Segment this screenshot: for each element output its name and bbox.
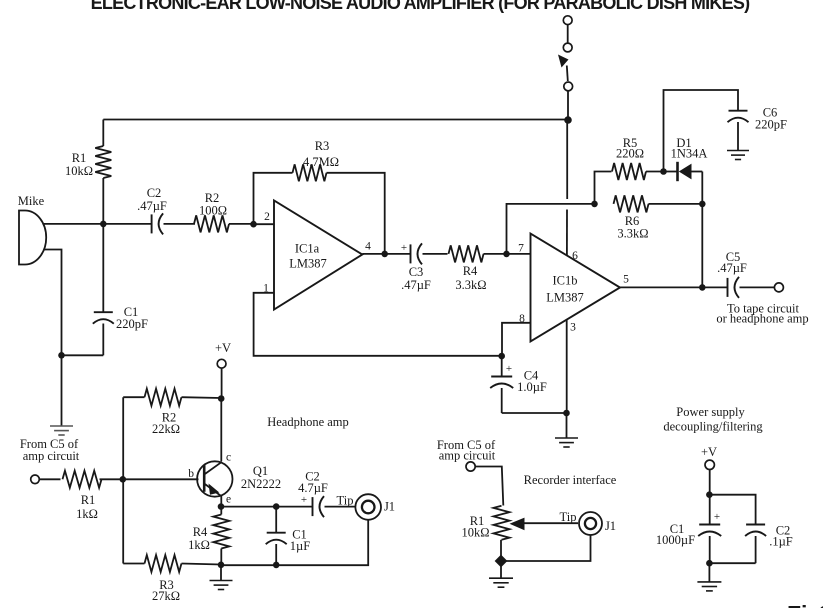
wire recorder input: [475, 467, 503, 506]
svg-text:1.0µF: 1.0µF: [517, 380, 547, 394]
svg-text:220Ω: 220Ω: [616, 147, 644, 161]
capacitor C1 220pF: [93, 224, 114, 355]
svg-text:Mike: Mike: [18, 194, 45, 208]
label From C5 of: [20, 437, 79, 451]
label C2: [147, 186, 162, 200]
label pin 8: [519, 313, 525, 325]
svg-text:IC1a: IC1a: [295, 242, 320, 256]
svg-text:J1: J1: [384, 500, 395, 514]
wire to IC1b pin 6 (lower part after crossing): [566, 210, 568, 256]
ground (mike input): [50, 426, 73, 435]
wire left bias bus: [122, 397, 124, 563]
svg-text:R1: R1: [72, 151, 87, 165]
svg-text:amp circuit: amp circuit: [23, 449, 80, 463]
label 2N2222: [241, 477, 281, 491]
svg-text:8: 8: [519, 313, 525, 325]
label C3 .47uF: [401, 278, 431, 292]
label c: [226, 452, 231, 464]
terminal output: [774, 283, 783, 292]
label pin 7: [518, 243, 524, 255]
junction pin8/C4/feedback: [498, 353, 505, 360]
label Tip (headphone): [337, 494, 354, 508]
junction R5/R6 left: [591, 201, 598, 208]
label C2h plus: [301, 494, 307, 506]
svg-text:+: +: [714, 511, 720, 523]
svg-text:+: +: [506, 363, 512, 375]
label Tip (recorder): [560, 510, 577, 524]
jack J1 (recorder): [579, 512, 602, 535]
label C6 220pF: [755, 118, 787, 132]
ground (main amp): [555, 438, 578, 447]
wire pin7 node up to feedback: [507, 204, 595, 254]
resistor R5 220 ohm: [595, 163, 664, 204]
svg-text:4: 4: [365, 241, 371, 253]
title text (cropped at top edge): [91, 0, 750, 13]
label 100 ohm: [199, 204, 227, 218]
terminal recorder input: [466, 462, 475, 471]
junction emitter node: [218, 503, 225, 510]
wire IC1a output pin 4: [362, 253, 410, 255]
wire jack down to rail: [221, 520, 368, 565]
svg-text:IC1b: IC1b: [553, 274, 578, 288]
label From C5 of (rec): [437, 438, 496, 452]
ground (recorder): [489, 578, 513, 587]
junction top rail / switch: [564, 116, 572, 124]
wire rail junction down to IC1b pin 6 (upper part): [566, 120, 568, 199]
ground (headphone): [210, 581, 233, 590]
label LM387 (b): [546, 291, 584, 305]
svg-text:1kΩ: 1kΩ: [188, 538, 210, 552]
svg-text:+: +: [301, 494, 307, 506]
svg-text:Recorder interface: Recorder interface: [524, 473, 617, 487]
wire psu +V down: [709, 470, 711, 525]
resistor R3 27k: [123, 555, 221, 572]
svg-text:b: b: [188, 468, 194, 480]
label or headphone amp: [716, 312, 808, 326]
label R4h: [193, 525, 208, 539]
label C1: [124, 305, 139, 319]
svg-text:2: 2: [264, 211, 270, 223]
op-amp IC1a LM387: [274, 201, 362, 310]
wire bottom rail: [502, 412, 567, 414]
label 22k: [152, 422, 180, 436]
capacitor C2 4.7uF (headphone output): [313, 496, 325, 517]
svg-text:C3: C3: [409, 265, 424, 279]
label C6: [763, 106, 778, 120]
label R4h 1k: [188, 538, 210, 552]
wire IC1b pin 3: [566, 319, 568, 413]
label R3: [315, 139, 330, 153]
svg-text:.47µF: .47µF: [717, 261, 747, 275]
capacitor C1 1000uF (psu): [698, 525, 721, 564]
wire R5R6 junction down to output: [701, 204, 703, 288]
ground (C6): [727, 151, 749, 160]
svg-text:.47µF: .47µF: [401, 278, 431, 292]
wire mike to input node: [43, 223, 104, 225]
wire to headphone ground: [220, 565, 222, 581]
svg-text:6-8: 6-8: [818, 601, 823, 608]
diode D1 1N34A: [664, 162, 703, 181]
label 1N34A: [671, 147, 708, 161]
switch S1 (power on/off): [558, 16, 573, 91]
svg-text:1kΩ: 1kΩ: [76, 507, 98, 521]
junction IC1a pin2 / R3 branch: [250, 221, 257, 228]
label pin 4: [365, 241, 371, 253]
capacitor C5 .47uF (output coupling): [728, 277, 740, 298]
wire Q1 emitter down: [220, 496, 222, 507]
label C5: [726, 250, 741, 264]
svg-text:2N2222: 2N2222: [241, 477, 281, 491]
wire ground node down: [61, 355, 63, 426]
potentiometer wiper arrow: [510, 518, 579, 531]
label 27k: [152, 589, 180, 603]
label R6 3.3k: [617, 227, 648, 241]
svg-text:1µF: 1µF: [290, 539, 310, 553]
wire mike lower lead: [44, 250, 62, 356]
resistor R3 4.7M (IC1a feedback): [254, 164, 385, 254]
label 220pF: [116, 317, 148, 331]
svg-text:C2: C2: [147, 186, 162, 200]
label R1r: [470, 514, 485, 528]
junction bottom rail ground: [563, 410, 570, 417]
svg-text:R4: R4: [463, 264, 478, 278]
svg-text:10kΩ: 10kΩ: [65, 164, 93, 178]
svg-text:5: 5: [623, 274, 629, 286]
svg-text:1000µF: 1000µF: [656, 533, 695, 547]
label R3h: [159, 578, 174, 592]
svg-text:Q1: Q1: [253, 464, 268, 478]
svg-text:Tip: Tip: [337, 494, 354, 508]
svg-text:Power supply: Power supply: [676, 405, 745, 419]
label D1: [676, 136, 691, 150]
label Power supply: [676, 405, 745, 419]
capacitor C4 1.0uF: [490, 356, 513, 413]
label C1h value: [290, 539, 310, 553]
label Q1: [253, 464, 268, 478]
wire psu bottom branch: [709, 562, 755, 564]
wire down to main ground: [566, 413, 568, 438]
svg-text:3.3kΩ: 3.3kΩ: [455, 278, 486, 292]
label Headphone amp: [267, 415, 349, 429]
label J1h: [384, 500, 395, 514]
svg-text:or headphone amp: or headphone amp: [716, 312, 808, 326]
label R4: [463, 264, 478, 278]
junction input node (R1/C2/mike): [100, 221, 107, 228]
wire C1 bottom to ground node: [62, 354, 104, 356]
svg-text:10kΩ: 10kΩ: [461, 526, 489, 540]
svg-text:4.7MΩ: 4.7MΩ: [303, 155, 339, 169]
junction R3/output: [381, 251, 388, 258]
junction psu top: [706, 491, 713, 498]
label C2h: [305, 470, 320, 484]
wire junction to IC1a pin 2: [254, 223, 275, 225]
label 3.3k: [455, 278, 486, 292]
junction C1h bottom: [273, 562, 280, 569]
label +V (psu): [701, 445, 717, 459]
wire +V down: [221, 368, 223, 398]
resistor R1 10k (input bias): [95, 120, 111, 225]
label pin 1: [263, 283, 269, 295]
svg-text:J1: J1: [605, 519, 616, 533]
label C2h value: [298, 481, 328, 495]
svg-text:+: +: [401, 242, 407, 254]
label C4: [524, 369, 539, 383]
label C1h: [292, 528, 307, 542]
resistor R2 100 ohm: [194, 215, 254, 232]
wire recorder jack to ground rail: [501, 535, 591, 561]
resistor R4 1k (emitter): [213, 507, 229, 565]
svg-text:.47µF: .47µF: [137, 199, 167, 213]
svg-text:3.3kΩ: 3.3kΩ: [617, 227, 648, 241]
label C3: [409, 265, 424, 279]
label R1r 10k: [461, 526, 489, 540]
svg-text:27kΩ: 27kΩ: [152, 589, 180, 603]
label .47uF: [137, 199, 167, 213]
label e: [226, 494, 231, 506]
wire D1 to R6 right junction: [701, 172, 703, 204]
wire IC1b output pin 5: [620, 286, 728, 288]
resistor R2 22k (headphone bias): [123, 389, 221, 406]
wire recorder ground stub: [500, 561, 502, 578]
junction mike/C1 ground node: [58, 352, 65, 359]
label to tape circuit: [727, 302, 800, 316]
label C1p plus: [714, 511, 720, 523]
label pin 5: [623, 274, 629, 286]
svg-text:22kΩ: 22kΩ: [152, 422, 180, 436]
label 10k&#937;: [65, 164, 93, 178]
label Recorder interface: [524, 473, 617, 487]
label 220 ohm: [616, 147, 644, 161]
capacitor C1 1uF (headphone): [266, 507, 287, 565]
svg-text:3: 3: [570, 322, 576, 334]
wire emitter to C2: [221, 506, 313, 508]
svg-text:LM387: LM387: [546, 291, 584, 305]
terminal headphone input: [31, 475, 40, 484]
svg-text:R3: R3: [315, 139, 330, 153]
jack J1 (headphone): [355, 494, 381, 520]
svg-text:6: 6: [572, 250, 578, 262]
svg-text:220pF: 220pF: [116, 317, 148, 331]
label C1p: [670, 522, 685, 536]
label 1000uF: [656, 533, 695, 547]
ground (psu): [697, 582, 721, 591]
label amp circuit (rec): [439, 449, 496, 463]
label C2p: [776, 524, 791, 538]
wire top supply rail: [103, 119, 567, 121]
svg-text:100Ω: 100Ω: [199, 204, 227, 218]
wire IC1b pin 8: [502, 323, 531, 356]
transistor Q1 2N2222: [197, 461, 232, 496]
junction emitter ground node: [218, 562, 225, 569]
label pin 6: [572, 250, 578, 262]
svg-text:amp circuit: amp circuit: [439, 449, 496, 463]
svg-text:decoupling/filtering: decoupling/filtering: [663, 420, 763, 434]
wire IC1a pin 1 stub: [254, 293, 502, 356]
capacitor C3 .47uF (interstage coupling): [411, 243, 423, 264]
potentiometer R1 10k (recorder): [494, 506, 510, 561]
svg-text:R4: R4: [193, 525, 208, 539]
wire psu top branch: [709, 495, 755, 525]
label amp circuit: [23, 449, 80, 463]
svg-text:4.7µF: 4.7µF: [298, 481, 328, 495]
label C5 .47uF: [717, 261, 747, 275]
label J1r: [605, 519, 616, 533]
svg-text:+V: +V: [701, 445, 717, 459]
svg-text:c: c: [226, 452, 231, 464]
svg-text:Headphone amp: Headphone amp: [267, 415, 349, 429]
figure caption (cropped at bottom edge): [787, 601, 823, 608]
label R2h: [162, 411, 177, 425]
resistor R1 1k (headphone input): [39, 471, 122, 488]
junction R2h/+V: [218, 395, 225, 402]
junction R5-D1/R6 right: [699, 201, 706, 208]
wire C6 branch: [664, 90, 739, 172]
svg-text:Tip: Tip: [560, 510, 577, 524]
svg-text:.1µF: .1µF: [769, 535, 793, 549]
op-amp IC1b LM387: [531, 234, 621, 342]
microphone Mike: [19, 211, 46, 265]
junction IC1b pin7 node: [503, 251, 510, 258]
junction output node: [699, 284, 706, 291]
label .1uF: [769, 535, 793, 549]
terminal +V psu: [705, 460, 714, 469]
junction recorder ground: [495, 555, 508, 568]
svg-text:LM387: LM387: [289, 257, 327, 271]
label R1: [72, 151, 87, 165]
resistor R6 3.3k (IC1b feedback): [614, 195, 703, 212]
wire base node to Q1 base: [123, 478, 199, 480]
label C3 plus: [401, 242, 407, 254]
svg-text:e: e: [226, 494, 231, 506]
wire switch to top rail: [567, 91, 569, 120]
svg-text:1: 1: [263, 283, 269, 295]
label +V (headphone): [215, 341, 231, 355]
label 1k h: [76, 507, 98, 521]
label R2: [205, 191, 220, 205]
label pin 2: [264, 211, 270, 223]
svg-text:220pF: 220pF: [755, 118, 787, 132]
svg-text:ELECTRONIC-EAR LOW-NOISE AUDIO: ELECTRONIC-EAR LOW-NOISE AUDIO AMPLIFIER…: [91, 0, 750, 13]
svg-text:7: 7: [518, 243, 524, 255]
svg-text:1N34A: 1N34A: [671, 147, 708, 161]
capacitor C2 .1uF (psu): [745, 525, 766, 564]
terminal +V headphone: [217, 359, 226, 368]
label decoupling/filtering: [663, 420, 763, 434]
wire C5 to output terminal: [740, 286, 775, 288]
junction psu bottom: [706, 560, 713, 567]
label LM387 (a): [289, 257, 327, 271]
junction R5/D1/C6: [660, 168, 667, 175]
junction base node: [120, 476, 127, 483]
label 4.7M: [303, 155, 339, 169]
wire C2 to jack: [325, 506, 356, 508]
label C4 plus: [506, 363, 512, 375]
wire Q1 collector up: [220, 399, 222, 462]
label C4 1.0uF: [517, 380, 547, 394]
label Mike: [18, 194, 45, 208]
label IC1a: [295, 242, 320, 256]
junction C1h top: [273, 503, 280, 510]
label pin 3: [570, 322, 576, 334]
label IC1b: [553, 274, 578, 288]
wire psu ground stub: [708, 563, 710, 582]
resistor R4 3.3k: [423, 245, 531, 262]
label R1h: [81, 493, 96, 507]
label R5: [623, 136, 638, 150]
svg-text:R1: R1: [81, 493, 96, 507]
svg-text:+V: +V: [215, 341, 231, 355]
label R6: [625, 214, 640, 228]
label b: [188, 468, 194, 480]
capacitor C6 220pF: [728, 111, 749, 151]
capacitor C2 .47uF (input coupling): [103, 213, 195, 234]
